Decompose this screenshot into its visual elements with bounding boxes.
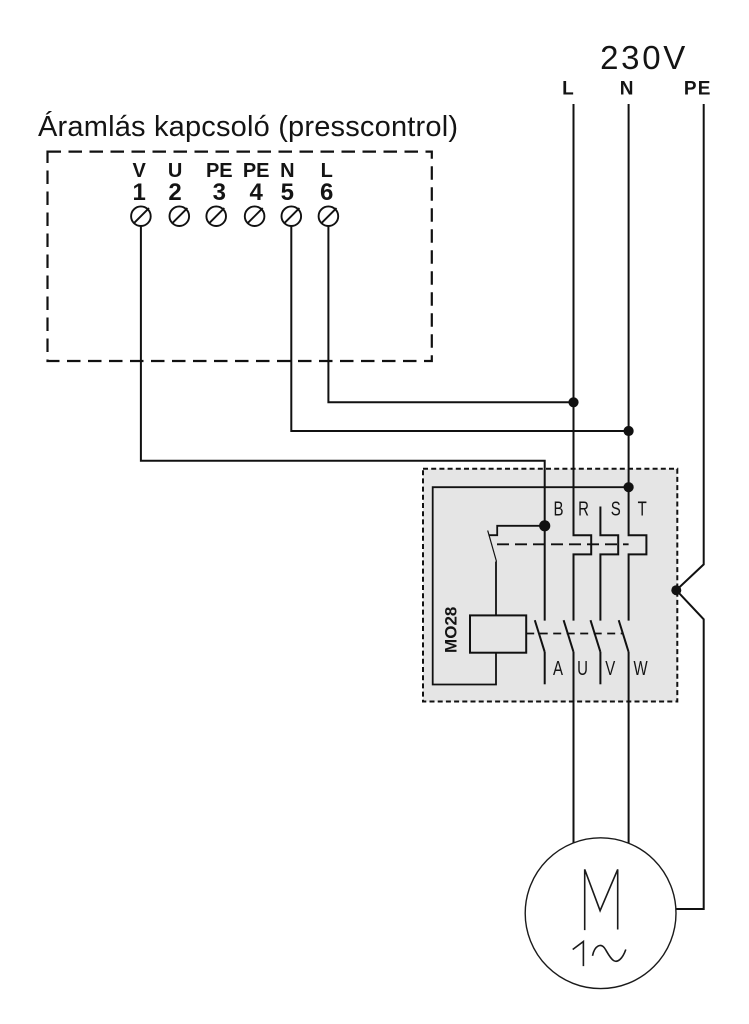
svg-text:Áramlás kapcsoló (presscontrol: Áramlás kapcsoló (presscontrol) (38, 110, 458, 143)
svg-text:V: V (605, 657, 615, 680)
svg-text:L: L (562, 78, 574, 99)
svg-text:B: B (554, 497, 564, 520)
svg-text:U: U (577, 657, 588, 680)
svg-text:MO28: MO28 (441, 607, 460, 653)
svg-text:230V: 230V (600, 39, 685, 76)
svg-text:5: 5 (281, 179, 294, 206)
svg-text:2: 2 (168, 179, 181, 206)
svg-text:4: 4 (250, 179, 264, 206)
svg-text:6: 6 (320, 179, 333, 206)
svg-text:T: T (638, 497, 647, 520)
svg-text:1: 1 (133, 179, 146, 206)
svg-text:PE: PE (684, 78, 711, 99)
svg-text:N: N (620, 78, 634, 99)
svg-text:3: 3 (213, 179, 226, 206)
svg-text:S: S (611, 497, 621, 520)
svg-text:A: A (553, 657, 563, 680)
svg-text:W: W (634, 657, 648, 680)
svg-text:R: R (578, 497, 589, 520)
